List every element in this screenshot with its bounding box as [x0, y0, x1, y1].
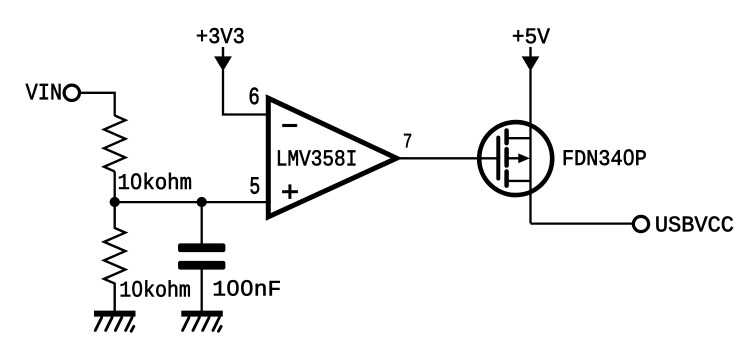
transistor Q1 body circle — [479, 122, 552, 195]
transistor Q1 gate bar — [496, 138, 500, 179]
wire node A to op-amp pin 5 — [115, 201, 266, 203]
label Q1 FDN340P — [564, 149, 646, 165]
node B junction dot — [197, 197, 207, 207]
wire +5V through MOSFET source to drain — [529, 70, 531, 223]
op-amp label LMV358I — [278, 150, 355, 165]
node A junction dot — [110, 197, 120, 207]
op-amp non-inverting input plus sign — [282, 184, 298, 199]
pin number 7 — [404, 134, 411, 148]
op-amp inverting input minus sign — [282, 124, 297, 127]
transistor Q1 channel segment middle — [504, 149, 509, 165]
wire VIN to resistor R1 — [80, 93, 114, 116]
pin number 6 — [250, 88, 259, 105]
resistor R1 — [104, 116, 125, 172]
wire C1 to ground — [201, 269, 203, 311]
supply +5V arrow — [522, 47, 540, 71]
supply label +3V3 — [197, 28, 244, 43]
transistor Q1 channel segment bottom — [504, 172, 509, 186]
terminal USBVCC pad — [633, 216, 648, 231]
wire op-amp output to MOSFET gate — [400, 157, 498, 159]
capacitor C1 bottom plate — [178, 261, 225, 270]
wire R1 to node A — [114, 172, 116, 202]
terminal VIN pad — [64, 85, 79, 100]
op-amp U1 triangle — [268, 98, 396, 217]
label C1 value 100nF — [214, 280, 280, 296]
label R1 value 10kohm — [119, 173, 191, 189]
label R2 value 10kohm — [121, 280, 190, 296]
supply +3V3 arrow — [214, 47, 232, 71]
net label VIN — [26, 84, 61, 99]
supply label +5V — [513, 29, 550, 44]
pin number 5 — [250, 177, 259, 193]
transistor Q1 source stub — [507, 137, 531, 139]
transistor Q1 channel segment top — [504, 131, 509, 144]
transistor Q1 drain stub — [507, 180, 531, 182]
resistor R2 — [104, 202, 125, 311]
transistor Q1 arrow — [507, 153, 530, 163]
net label USBVCC — [656, 216, 733, 231]
wire MOSFET drain to USBVCC — [531, 222, 633, 224]
wire +3V3 to op-amp pin 6 — [223, 70, 266, 115]
ground under C1 — [181, 314, 223, 332]
ground under R2 — [94, 314, 136, 332]
capacitor C1 top plate — [178, 243, 225, 252]
wire node B down to capacitor C1 — [201, 202, 203, 244]
